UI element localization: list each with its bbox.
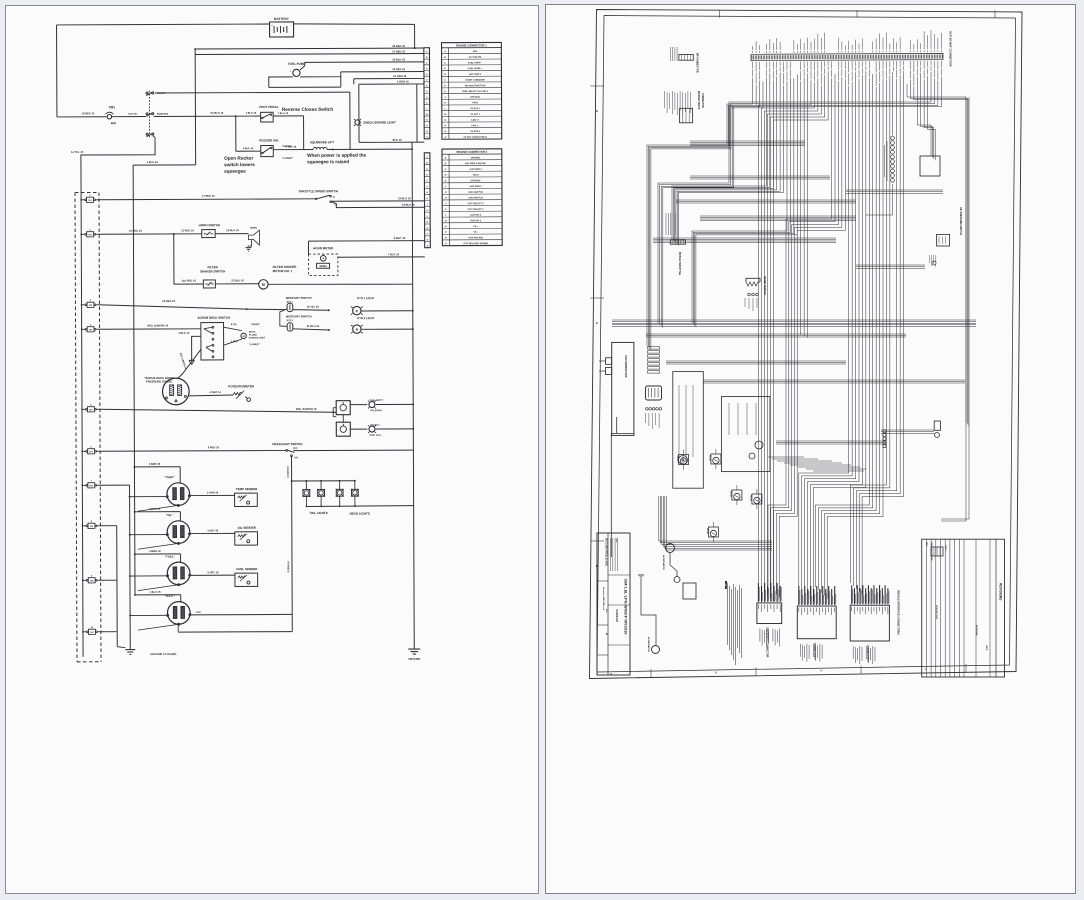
svg-text:E: E bbox=[444, 74, 446, 76]
svg-text:UNUSED: UNUSED bbox=[471, 157, 481, 159]
svg-text:10 RED 14: 10 RED 14 bbox=[82, 111, 95, 115]
svg-text:D: D bbox=[445, 175, 447, 177]
svg-text:R: R bbox=[445, 131, 447, 133]
svg-text:VBV: VBV bbox=[473, 51, 478, 53]
svg-text:TACH: TACH bbox=[473, 174, 479, 177]
svg-text:R: R bbox=[356, 328, 359, 332]
svg-text:Size: Size bbox=[605, 609, 607, 613]
svg-text:TEMP SENDER: TEMP SENDER bbox=[236, 487, 258, 491]
svg-text:TANK EMPTY: TANK EMPTY bbox=[369, 399, 384, 402]
svg-text:TANK FULL: TANK FULL bbox=[369, 434, 382, 437]
svg-text:4: 4 bbox=[90, 324, 92, 327]
svg-text:RELAY: RELAY bbox=[729, 491, 732, 498]
svg-text:R: R bbox=[356, 309, 359, 313]
svg-text:AUX PWR 5 RECIRC: AUX PWR 5 RECIRC bbox=[465, 162, 487, 165]
svg-text:+: + bbox=[290, 70, 292, 73]
svg-text:FUEL SELECT VLV DIG 2: FUEL SELECT VLV DIG 2 bbox=[462, 91, 489, 93]
svg-text:RECIRC./: RECIRC./ bbox=[370, 425, 380, 427]
svg-text:squeegee: squeegee bbox=[224, 169, 246, 174]
svg-text:M: M bbox=[427, 222, 429, 224]
svg-text:22 BRN 16: 22 BRN 16 bbox=[288, 466, 290, 478]
svg-text:GM 1.6L LPG W/GCP MY2010: GM 1.6L LPG W/GCP MY2010 bbox=[624, 579, 629, 635]
svg-text:CONNECTOR: CONNECTOR bbox=[701, 93, 703, 108]
svg-text:“TEMP”: “TEMP” bbox=[164, 475, 175, 479]
svg-text:“LOWER”: “LOWER” bbox=[249, 344, 260, 346]
svg-text:B: B bbox=[426, 57, 428, 59]
svg-text:POTENTIOMETER: POTENTIOMETER bbox=[228, 384, 255, 388]
svg-text:2 BRN 18: 2 BRN 18 bbox=[149, 507, 161, 511]
svg-text:3 GRN 18: 3 GRN 18 bbox=[207, 491, 219, 494]
svg-text:CB1: CB1 bbox=[109, 105, 116, 109]
svg-text:FOOT PEDAL: FOOT PEDAL bbox=[259, 105, 279, 109]
svg-text:H: H bbox=[427, 198, 429, 200]
svg-text:HEAD LIGHTS: HEAD LIGHTS bbox=[349, 512, 369, 516]
svg-text:ON: ON bbox=[294, 457, 298, 459]
svg-text:L: L bbox=[445, 108, 447, 110]
svg-text:14 YEL 16: 14 YEL 16 bbox=[71, 150, 84, 154]
svg-text:DESCRIPTION: DESCRIPTION bbox=[935, 605, 937, 619]
svg-text:B: B bbox=[426, 162, 428, 164]
svg-text:DECK: DECK bbox=[249, 332, 256, 334]
svg-text:FPP1/IVS: FPP1/IVS bbox=[470, 97, 480, 99]
svg-text:APPROVAL: APPROVAL bbox=[975, 625, 978, 637]
svg-text:G: G bbox=[426, 192, 428, 194]
svg-text:15A: 15A bbox=[88, 233, 92, 236]
svg-text:“FUEL”: “FUEL” bbox=[165, 554, 176, 558]
svg-text:P: P bbox=[427, 234, 429, 236]
svg-text:15A: 15A bbox=[90, 525, 94, 528]
svg-text:N: N bbox=[426, 120, 428, 122]
svg-text:When power is applied the: When power is applied the bbox=[307, 153, 367, 158]
svg-text:REV: REV bbox=[925, 542, 927, 547]
svg-text:L: L bbox=[445, 215, 447, 217]
svg-text:FUEL PUMP +: FUEL PUMP + bbox=[468, 68, 483, 70]
svg-text:C: C bbox=[445, 169, 447, 171]
svg-text:OIL SENDER: OIL SENDER bbox=[238, 526, 257, 530]
svg-text:MERCURY SWITCH: MERCURY SWITCH bbox=[286, 314, 312, 318]
svg-text:THROTTLE SPEED SWITCH: THROTTLE SPEED SWITCH bbox=[298, 189, 338, 193]
svg-text:ALT EXCITE: ALT EXCITE bbox=[469, 56, 482, 59]
svg-text:6 RED 16: 6 RED 16 bbox=[286, 145, 297, 148]
svg-text:SCRUB DECK SWITCH: SCRUB DECK SWITCH bbox=[197, 316, 230, 320]
svg-text:M: M bbox=[262, 283, 265, 287]
svg-text:2 ORG 18: 2 ORG 18 bbox=[397, 79, 409, 83]
svg-text:N: N bbox=[445, 120, 447, 122]
svg-text:A: A bbox=[596, 109, 599, 113]
svg-text:17 RED 16: 17 RED 16 bbox=[202, 194, 215, 198]
svg-text:15A: 15A bbox=[89, 450, 93, 453]
svg-text:OFF: OFF bbox=[293, 448, 298, 450]
svg-text:20 RED 16: 20 RED 16 bbox=[392, 67, 405, 71]
svg-text:RTR 1 LIGHT: RTR 1 LIGHT bbox=[357, 296, 375, 300]
svg-text:FUEL PUMP: FUEL PUMP bbox=[288, 62, 305, 66]
svg-text:15 RED 18: 15 RED 18 bbox=[129, 229, 142, 233]
svg-text:13 RED 16: 13 RED 16 bbox=[181, 228, 194, 232]
svg-text:AUX ANA PU1: AUX ANA PU1 bbox=[468, 196, 483, 199]
svg-text:P: P bbox=[445, 232, 447, 234]
svg-text:AUX PWR 3: AUX PWR 3 bbox=[469, 168, 482, 171]
svg-text:15A: 15A bbox=[89, 328, 93, 331]
svg-text:NOTES: NOTES bbox=[724, 581, 726, 589]
svg-text:M: M bbox=[444, 114, 446, 116]
svg-text:TAIL LIGHTS: TAIL LIGHTS bbox=[310, 511, 328, 515]
svg-text:GROUND: GROUND bbox=[471, 180, 481, 182]
svg-text:15A: 15A bbox=[89, 304, 93, 307]
svg-text:6: 6 bbox=[715, 670, 717, 674]
svg-text:MERCURY SWITCH: MERCURY SWITCH bbox=[286, 296, 312, 300]
svg-text:5 GRY 18: 5 GRY 18 bbox=[207, 571, 218, 574]
svg-text:RELAY: RELAY bbox=[676, 456, 679, 463]
svg-text:K: K bbox=[426, 102, 428, 104]
svg-text:+: + bbox=[271, 24, 273, 27]
svg-text:P: P bbox=[426, 125, 428, 127]
svg-text:L: L bbox=[426, 108, 428, 110]
svg-text:AUX PWR 1: AUX PWR 1 bbox=[469, 185, 482, 188]
svg-text:M: M bbox=[243, 335, 245, 338]
svg-text:“OIL”: “OIL” bbox=[166, 513, 174, 517]
svg-text:J: J bbox=[427, 204, 428, 206]
svg-text:AUX ANA PD1: AUX ANA PD1 bbox=[468, 236, 483, 239]
svg-text:D: D bbox=[444, 68, 446, 70]
svg-text:8 YEL: 8 YEL bbox=[231, 324, 238, 326]
svg-text:5V EXT 2 (FPP2 ONLY): 5V EXT 2 (FPP2 ONLY) bbox=[464, 137, 488, 139]
svg-text:GOV SELECT 1: GOV SELECT 1 bbox=[468, 209, 485, 211]
svg-text:HOUR METER: HOUR METER bbox=[313, 246, 334, 250]
svg-text:F: F bbox=[426, 80, 428, 82]
svg-text:ENGINE CONNECTOR 1: ENGINE CONNECTOR 1 bbox=[456, 43, 487, 47]
svg-text:7 BLK 16: 7 BLK 16 bbox=[388, 252, 400, 256]
svg-text:-: - bbox=[291, 24, 292, 27]
svg-text:HEADLIGHT SWITCH: HEADLIGHT SWITCH bbox=[272, 442, 302, 446]
svg-text:S: S bbox=[445, 137, 447, 139]
svg-text:RTR 2 LIGHT: RTR 2 LIGHT bbox=[357, 316, 375, 320]
svg-text:CRANK SENSOR: CRANK SENSOR bbox=[763, 276, 766, 295]
svg-text:SOLENOID: SOLENOID bbox=[370, 410, 382, 412]
svg-text:C2322118: C2322118 bbox=[615, 609, 619, 622]
svg-text:START COMMAND: START COMMAND bbox=[465, 79, 485, 82]
svg-text:ENGINE CONNECTOR 2: ENGINE CONNECTOR 2 bbox=[457, 150, 488, 154]
svg-text:SQUEEGEE LIFT: SQUEEGEE LIFT bbox=[310, 140, 334, 144]
svg-text:2 BRN 18: 2 BRN 18 bbox=[149, 462, 161, 466]
svg-text:AUX PWR 2: AUX PWR 2 bbox=[469, 73, 482, 76]
svg-text:R: R bbox=[445, 238, 447, 240]
svg-text:RELAY: RELAY bbox=[708, 455, 711, 462]
svg-text:HI: HI bbox=[333, 197, 336, 199]
svg-text:RTR 2: RTR 2 bbox=[287, 320, 294, 322]
svg-text:L: L bbox=[427, 216, 429, 218]
svg-text:J: J bbox=[445, 97, 447, 99]
svg-text:25 RED 16: 25 RED 16 bbox=[162, 299, 175, 303]
svg-text:“RAISE”: “RAISE” bbox=[251, 323, 260, 326]
svg-text:VEHICLE INTERFACE CONNECTIONS: VEHICLE INTERFACE CONNECTIONS bbox=[897, 590, 900, 635]
svg-text:CHECK ENGINE LIGHT: CHECK ENGINE LIGHT bbox=[363, 120, 396, 124]
svg-text:18 BLU 18: 18 BLU 18 bbox=[402, 203, 415, 207]
svg-text:R: R bbox=[427, 240, 429, 242]
svg-text:BOSCH THROTTLE: BOSCH THROTTLE bbox=[678, 252, 681, 275]
svg-text:A: A bbox=[426, 50, 428, 53]
svg-text:K: K bbox=[427, 210, 429, 212]
svg-text:DATE: DATE bbox=[985, 645, 988, 651]
svg-text:RED JUMPER 16: RED JUMPER 16 bbox=[148, 323, 169, 327]
svg-text:25 BLK 16: 25 BLK 16 bbox=[392, 57, 405, 61]
svg-text:DCCONTROLS INC.: DCCONTROLS INC. bbox=[605, 538, 609, 567]
svg-text:GOV RELAYED POWER: GOV RELAYED POWER bbox=[463, 242, 488, 245]
svg-text:ALTERNATOR -: ALTERNATOR - bbox=[647, 637, 650, 653]
svg-text:MP CONNECTOR: MP CONNECTOR bbox=[696, 53, 699, 73]
svg-text:22 BRN 16: 22 BRN 16 bbox=[288, 561, 290, 573]
svg-text:C: C bbox=[426, 168, 428, 170]
svg-text:4 GRY 18: 4 GRY 18 bbox=[207, 529, 218, 532]
svg-text:switch lowers: switch lowers bbox=[224, 162, 255, 167]
svg-text:13A RED 18: 13A RED 18 bbox=[181, 279, 196, 283]
svg-text:5 BLK 16: 5 BLK 16 bbox=[243, 147, 254, 150]
svg-text:88888: 88888 bbox=[319, 264, 327, 268]
svg-text:BLK 18: BLK 18 bbox=[393, 138, 403, 142]
svg-text:FPP2: FPP2 bbox=[472, 102, 478, 104]
svg-text:-: - bbox=[303, 70, 304, 73]
svg-text:FLUSH: FLUSH bbox=[249, 335, 257, 337]
svg-text:“LOWER”: “LOWER” bbox=[282, 158, 293, 160]
svg-text:RED JUMPER 16: RED JUMPER 16 bbox=[296, 407, 317, 411]
svg-text:15A: 15A bbox=[89, 408, 93, 411]
svg-text:S: S bbox=[445, 243, 447, 245]
svg-text:F: F bbox=[445, 186, 447, 188]
svg-text:DIAGNOSTIC CONNECTOR: DIAGNOSTIC CONNECTOR bbox=[765, 628, 768, 658]
svg-text:M: M bbox=[445, 220, 447, 222]
svg-text:G: G bbox=[445, 192, 447, 194]
svg-text:GOV SELECT 2: GOV SELECT 2 bbox=[468, 203, 485, 205]
svg-text:P: P bbox=[445, 125, 447, 127]
svg-text:H: H bbox=[444, 91, 446, 93]
svg-text:24 GRN 18: 24 GRN 18 bbox=[393, 74, 407, 78]
svg-text:FUEL PUMP -: FUEL PUMP - bbox=[468, 62, 482, 64]
svg-text:CAN TERMINATOR: CAN TERMINATOR bbox=[624, 355, 627, 378]
svg-text:REVISIONS: REVISIONS bbox=[999, 583, 1003, 600]
svg-text:N: N bbox=[427, 228, 429, 230]
svg-text:RED JUMPER 16: RED JUMPER 16 bbox=[179, 353, 187, 371]
svg-text:R: R bbox=[426, 131, 428, 133]
svg-text:HORN SWITCH: HORN SWITCH bbox=[199, 223, 221, 227]
svg-text:A: A bbox=[444, 50, 446, 53]
svg-text:2 BRN 18: 2 BRN 18 bbox=[149, 549, 161, 553]
svg-text:D: D bbox=[426, 174, 428, 176]
svg-text:F: F bbox=[445, 80, 447, 82]
svg-text:F: F bbox=[427, 186, 429, 188]
svg-text:HORN: HORN bbox=[250, 227, 257, 230]
svg-text:Open Rocker: Open Rocker bbox=[224, 156, 253, 161]
svg-text:7 BLU 16: 7 BLU 16 bbox=[278, 112, 289, 115]
svg-text:23 BLU 16: 23 BLU 16 bbox=[231, 278, 244, 282]
svg-text:IGNITION: IGNITION bbox=[157, 113, 168, 116]
svg-text:1 BLU 16: 1 BLU 16 bbox=[149, 590, 161, 594]
svg-text:5A BLK 16: 5A BLK 16 bbox=[210, 111, 223, 115]
svg-text:K: K bbox=[445, 209, 447, 211]
svg-text:5V RTN 1: 5V RTN 1 bbox=[470, 108, 480, 110]
svg-text:C: C bbox=[596, 321, 599, 325]
svg-text:18 BLU 18: 18 BLU 18 bbox=[398, 196, 411, 200]
svg-text:CAN 1 -: CAN 1 - bbox=[471, 124, 479, 127]
svg-text:B: B bbox=[444, 57, 446, 59]
svg-text:MOTOR NO. 1: MOTOR NO. 1 bbox=[273, 269, 293, 273]
svg-text:15A: 15A bbox=[90, 579, 94, 582]
svg-text:21 BLU 16: 21 BLU 16 bbox=[307, 324, 320, 328]
svg-text:C: C bbox=[444, 63, 446, 65]
svg-text:RELAY: RELAY bbox=[749, 495, 752, 502]
svg-text:A: A bbox=[426, 156, 428, 159]
svg-text:3 BLK 14: 3 BLK 14 bbox=[178, 331, 190, 335]
svg-text:(GROUND AT FRAME): (GROUND AT FRAME) bbox=[150, 653, 176, 656]
svg-text:B: B bbox=[605, 633, 609, 635]
svg-text:Title:: Title: bbox=[615, 538, 618, 543]
svg-text:RELAY: RELAY bbox=[706, 528, 709, 535]
svg-text:H: H bbox=[445, 198, 447, 200]
svg-text:VS -: VS - bbox=[474, 232, 479, 234]
svg-text:CAN 1 +: CAN 1 + bbox=[471, 119, 480, 122]
svg-text:STROKE LIMIT: STROKE LIMIT bbox=[249, 338, 266, 340]
svg-text:E: E bbox=[426, 74, 428, 76]
svg-text:H: H bbox=[426, 91, 428, 93]
svg-text:G: G bbox=[426, 85, 428, 87]
svg-text:MCB: MCB bbox=[196, 612, 201, 614]
svg-text:MASTER TRACK: MASTER TRACK bbox=[697, 91, 700, 110]
svg-text:16 BLU 16: 16 BLU 16 bbox=[226, 228, 239, 232]
svg-text:ROCKER SW.: ROCKER SW. bbox=[259, 138, 279, 142]
svg-text:BATTERY: BATTERY bbox=[128, 113, 138, 116]
svg-text:19 YEL 16: 19 YEL 16 bbox=[307, 305, 320, 309]
svg-text:3 BLK 16: 3 BLK 16 bbox=[246, 112, 257, 115]
svg-text:ALTERNATOR: ALTERNATOR bbox=[662, 555, 665, 570]
svg-text:GROUND: GROUND bbox=[408, 657, 420, 661]
svg-text:G: G bbox=[444, 85, 446, 87]
svg-text:Filename: EASY-WD1.sch: Filename: EASY-WD1.sch bbox=[602, 587, 605, 611]
svg-text:E: E bbox=[427, 180, 429, 182]
svg-text:J: J bbox=[426, 97, 427, 99]
svg-text:C: C bbox=[426, 63, 428, 65]
svg-text:FUEL SENDER: FUEL SENDER bbox=[236, 567, 258, 571]
svg-text:AUX ANA PU2: AUX ANA PU2 bbox=[468, 191, 483, 194]
svg-text:15A: 15A bbox=[89, 484, 93, 487]
svg-text:MIL MALFUNCTION: MIL MALFUNCTION bbox=[465, 84, 486, 87]
svg-text:J: J bbox=[445, 203, 447, 205]
svg-text:45A: 45A bbox=[111, 121, 117, 125]
svg-text:6 WHT 18: 6 WHT 18 bbox=[394, 236, 406, 240]
svg-text:Reverse Closes Switch: Reverse Closes Switch bbox=[282, 107, 333, 112]
svg-text:N: N bbox=[445, 226, 447, 228]
svg-text:8: 8 bbox=[610, 672, 612, 676]
svg-text:8 RED 18: 8 RED 18 bbox=[208, 445, 220, 449]
svg-text:AUX DIG 3: AUX DIG 3 bbox=[470, 219, 482, 222]
svg-text:D: D bbox=[426, 68, 428, 70]
svg-text:M: M bbox=[426, 114, 428, 116]
svg-text:squeegee is raised: squeegee is raised bbox=[307, 159, 349, 164]
svg-text:26 RED 16: 26 RED 16 bbox=[392, 44, 405, 48]
svg-text:AUX DIG 2: AUX DIG 2 bbox=[470, 214, 482, 217]
svg-text:SHAKER SWITCH: SHAKER SWITCH bbox=[200, 269, 225, 273]
svg-text:5V RTN 2: 5V RTN 2 bbox=[470, 131, 480, 133]
svg-text:A: A bbox=[445, 157, 447, 160]
svg-text:4: 4 bbox=[820, 669, 822, 673]
svg-text:1 BLU 16: 1 BLU 16 bbox=[147, 160, 159, 164]
svg-text:GCP 56 WAY CONNECTOR: GCP 56 WAY CONNECTOR bbox=[949, 31, 953, 67]
svg-text:5V EXT 1: 5V EXT 1 bbox=[471, 114, 481, 116]
svg-text:4 WHT 14: 4 WHT 14 bbox=[209, 391, 221, 394]
svg-text:B: B bbox=[445, 163, 447, 165]
svg-text:VS +: VS + bbox=[473, 226, 479, 228]
svg-text:15A: 15A bbox=[90, 631, 94, 634]
svg-text:27 RED 16: 27 RED 16 bbox=[392, 49, 405, 53]
svg-text:FIRST PROTOTYPE: FIRST PROTOTYPE bbox=[930, 542, 932, 561]
svg-text:15A: 15A bbox=[88, 199, 92, 202]
svg-text:OIL PRESSURE SWITCH: OIL PRESSURE SWITCH bbox=[959, 207, 962, 235]
svg-text:E: E bbox=[445, 180, 447, 182]
svg-text:BATTERY: BATTERY bbox=[274, 17, 290, 21]
svg-text:K: K bbox=[444, 103, 446, 105]
